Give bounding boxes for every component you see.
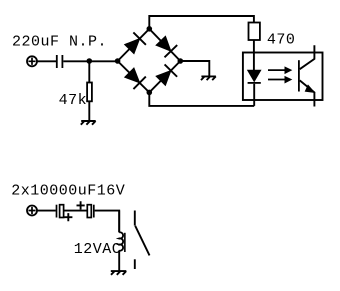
svg-text:220uF N.P.: 220uF N.P. bbox=[12, 33, 107, 50]
svg-text:47k: 47k bbox=[59, 92, 88, 109]
svg-text:12VAC: 12VAC bbox=[74, 241, 122, 258]
svg-text:2x10000uF16V: 2x10000uF16V bbox=[11, 183, 125, 200]
svg-text:470: 470 bbox=[267, 31, 296, 48]
